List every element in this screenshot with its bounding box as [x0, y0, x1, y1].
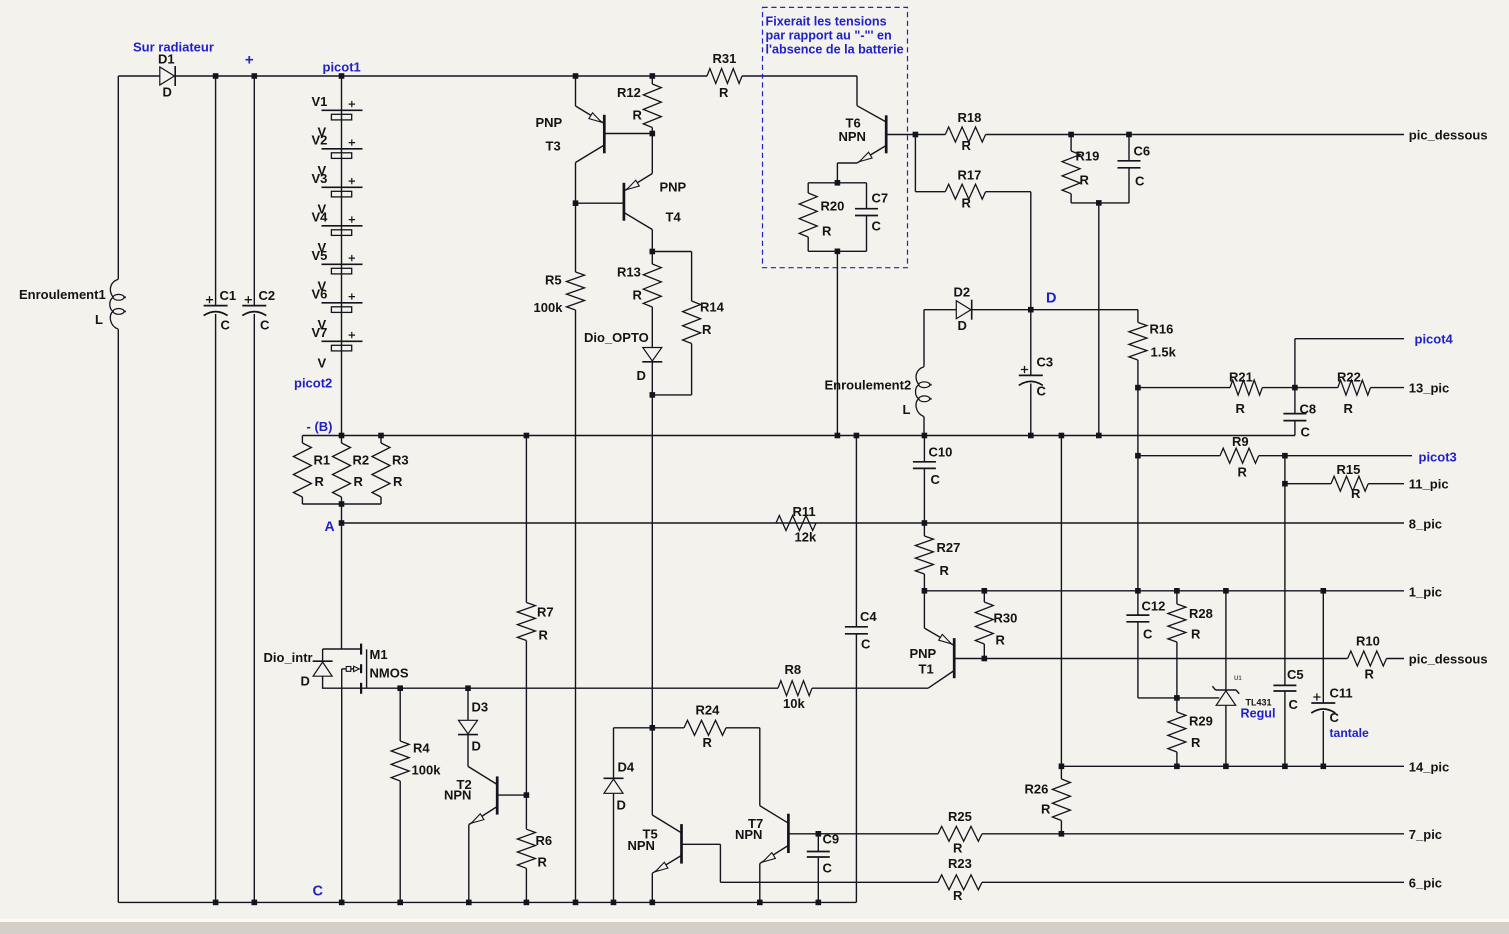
- svg-text:C: C: [1301, 425, 1311, 440]
- dashed comment box: [763, 7, 908, 267]
- resistor R11: [776, 516, 816, 531]
- svg-text:R8: R8: [785, 662, 802, 677]
- plus mark of V3: [349, 178, 355, 184]
- svg-text:C: C: [861, 637, 871, 652]
- transistor T7 (NPN): [759, 728, 761, 806]
- svg-text:R: R: [1351, 486, 1361, 501]
- wire junction column to B rail: [1098, 203, 1100, 436]
- svg-text:11_pic: 11_pic: [1409, 477, 1449, 492]
- svg-text:tantale: tantale: [1330, 726, 1370, 740]
- svg-text:R19: R19: [1076, 149, 1100, 164]
- resistor R6: [525, 795, 527, 829]
- transistor T2 (NPN): [468, 766, 497, 784]
- capacitor C12: [1137, 591, 1139, 615]
- wire T5 emitter to C rail: [651, 873, 653, 902]
- svg-text:C4: C4: [860, 609, 877, 624]
- transistor T4 (PNP): [651, 134, 653, 174]
- capacitor C6: [1128, 135, 1130, 161]
- svg-text:picot1: picot1: [323, 60, 361, 75]
- junction R28 top: [1174, 588, 1180, 594]
- svg-text:R11: R11: [793, 504, 816, 519]
- svg-text:C: C: [260, 318, 270, 333]
- plus mark of V2: [349, 139, 355, 145]
- plus mark of V6: [349, 293, 355, 299]
- wire T4 base lead: [576, 202, 624, 204]
- wire M1 source line y=688.2: [322, 687, 778, 689]
- svg-text:C1: C1: [220, 288, 237, 303]
- transistor T6 (NPN): [856, 76, 858, 106]
- svg-text:PNP: PNP: [910, 646, 937, 661]
- svg-text:V6: V6: [312, 286, 328, 301]
- svg-text:D4: D4: [618, 760, 635, 775]
- svg-text:C2: C2: [259, 288, 276, 303]
- capacitor C3: [1030, 310, 1032, 376]
- wire B rail y=435.5: [302, 435, 1295, 437]
- svg-text:R28: R28: [1189, 606, 1213, 621]
- svg-text:7_pic: 7_pic: [1409, 827, 1442, 842]
- svg-text:1.5k: 1.5k: [1151, 345, 1177, 360]
- resistor R29: [1176, 698, 1178, 712]
- wire 14_pic rail y=766.3: [1061, 765, 1404, 767]
- resistor R10: [1348, 651, 1387, 666]
- svg-text:U1: U1: [1234, 676, 1242, 682]
- wire mid column x=652.3 down to T5: [651, 395, 653, 728]
- junction C2 bottom on C rail: [252, 900, 258, 906]
- wire picot4 branch: [1294, 339, 1296, 388]
- svg-text:pic_dessous: pic_dessous: [1409, 652, 1488, 667]
- svg-text:NPN: NPN: [735, 827, 762, 842]
- resistor R2: [341, 436, 343, 444]
- wire T2 base lead: [497, 794, 526, 796]
- resistor R26: [1060, 436, 1062, 780]
- resistor R15: [1331, 476, 1368, 491]
- svg-text:R20: R20: [821, 199, 845, 214]
- wire R21 line y=387.6: [1138, 387, 1230, 389]
- capacitor C9: [817, 834, 819, 852]
- svg-text:D: D: [301, 674, 310, 689]
- svg-text:R17: R17: [958, 168, 982, 183]
- svg-text:picot2: picot2: [294, 376, 332, 391]
- wire C rail y=902.4: [118, 901, 856, 903]
- wire T5 base lead: [682, 843, 721, 845]
- svg-text:R4: R4: [413, 741, 430, 756]
- svg-text:C: C: [1330, 710, 1340, 725]
- battery V2: [322, 148, 363, 150]
- junction R27 bottom / T1 emitter: [922, 588, 928, 594]
- svg-text:Regul: Regul: [1241, 707, 1276, 721]
- junction R30 top: [982, 588, 988, 594]
- battery V5: [322, 263, 363, 265]
- svg-text:R: R: [996, 633, 1006, 648]
- junction picot4 / C8 / R21 R22: [1292, 385, 1298, 391]
- wire T2 emitter to C rail: [468, 825, 470, 903]
- junction R26 bottom on 7_pic line: [1059, 831, 1065, 837]
- junction R20 C7 bottom: [835, 249, 841, 255]
- svg-text:R: R: [633, 288, 643, 303]
- svg-text:C12: C12: [1142, 599, 1166, 614]
- svg-text:Dio_intr: Dio_intr: [264, 650, 313, 665]
- junction T6 base: [913, 132, 919, 138]
- svg-text:D: D: [163, 85, 172, 100]
- svg-text:NPN: NPN: [444, 788, 471, 803]
- plus mark of C11: [1313, 693, 1320, 700]
- junction R5 column on C rail: [573, 900, 579, 906]
- svg-text:8_pic: 8_pic: [1409, 517, 1442, 532]
- svg-text:C: C: [823, 861, 833, 876]
- capacitor C8: [1294, 388, 1296, 414]
- plus mark of V4: [349, 216, 355, 222]
- junction M1 gate column on C rail: [339, 900, 345, 906]
- svg-text:R6: R6: [536, 833, 553, 848]
- junction C11 top on 1_pic: [1321, 588, 1327, 594]
- junction R30 bottom / T1 base: [982, 656, 988, 662]
- resistor R13: [651, 252, 653, 265]
- wire 6_pic line y=882.3: [719, 844, 721, 882]
- inductor Enroulement2: [916, 367, 924, 385]
- junction T3 base / R12 / T4: [650, 131, 656, 137]
- svg-text:C: C: [931, 472, 941, 487]
- svg-text:NPN: NPN: [628, 838, 655, 853]
- junction R1R2R3 bottom: [339, 501, 345, 507]
- junction T2 base / R7 R6: [524, 792, 530, 798]
- junction battery minus on B rail: [339, 433, 345, 439]
- svg-text:V5: V5: [312, 248, 328, 263]
- resistor R23: [938, 875, 982, 890]
- junction Dio_OPTO bottom / R14: [650, 392, 656, 398]
- diode D1: [160, 67, 175, 85]
- resistor R7: [525, 436, 527, 603]
- wire pic_dessous line y=134.5: [915, 134, 945, 136]
- junction R26 top on B rail: [1059, 433, 1065, 439]
- resistor R31: [707, 69, 742, 84]
- transistor T3 (PNP): [575, 76, 577, 106]
- battery V1: [322, 109, 363, 111]
- resistor R18: [945, 127, 985, 142]
- svg-text:R21: R21: [1229, 370, 1253, 385]
- svg-text:C5: C5: [1287, 667, 1304, 682]
- wire 1_pic rail y=590.8: [924, 590, 1404, 592]
- wire R20/C7 to B rail: [836, 251, 838, 435]
- junction R7 top on B rail: [524, 433, 530, 439]
- svg-text:R18: R18: [958, 110, 982, 125]
- svg-text:R: R: [354, 474, 364, 489]
- svg-text:R: R: [1041, 802, 1051, 817]
- wire T6 base lead: [886, 134, 915, 136]
- svg-text:R: R: [702, 322, 712, 337]
- svg-text:R: R: [633, 108, 643, 123]
- svg-text:R: R: [1191, 627, 1201, 642]
- wire pic_dessous line y=658.5: [954, 658, 1347, 660]
- wire R15 line y=483.7: [1285, 483, 1331, 485]
- junction T4 collector / R13 R14: [650, 249, 656, 255]
- junction C10 bottom / R27 top: [922, 520, 928, 526]
- junction C1 top: [213, 73, 219, 79]
- junction R29 bottom on 14_pic: [1174, 764, 1180, 770]
- svg-text:D2: D2: [954, 285, 971, 300]
- junction R9 / C5 top: [1282, 453, 1288, 459]
- transistor T5 (NPN): [651, 728, 653, 815]
- junction R26 on 14_pic: [1059, 764, 1065, 770]
- resistor R22: [1338, 380, 1371, 395]
- svg-text:PNP: PNP: [660, 180, 687, 195]
- svg-text:12k: 12k: [795, 530, 817, 545]
- svg-text:+: +: [245, 52, 254, 69]
- capacitor C7: [866, 183, 868, 209]
- resistor R19: [1070, 135, 1072, 152]
- svg-text:picot4: picot4: [1415, 332, 1454, 347]
- svg-text:V2: V2: [312, 132, 328, 147]
- svg-text:D: D: [617, 798, 626, 813]
- junction C11 bottom on 14_pic: [1321, 764, 1327, 770]
- wire R20/C7 bottom rail: [808, 250, 866, 252]
- junction node A: [339, 520, 345, 526]
- junction R16 bottom: [1135, 385, 1141, 391]
- inductor Enroulement1: [110, 279, 118, 297]
- wire R1R2R3 bottom rail y=504: [302, 503, 381, 505]
- svg-text:par rapport au "-"' en: par rapport au "-"' en: [766, 29, 892, 43]
- resistor R17: [915, 191, 945, 193]
- plus mark of V5: [349, 255, 355, 261]
- junction x1138 column on 1_pic: [1135, 588, 1141, 594]
- svg-text:C11: C11: [1330, 686, 1353, 701]
- resistor R25: [938, 826, 982, 841]
- junction TL431 anode on 14_pic: [1223, 764, 1229, 770]
- junction T3 collector / T4 base: [573, 200, 579, 206]
- svg-text:1_pic: 1_pic: [1409, 585, 1442, 600]
- transistor T1 (PNP): [923, 591, 925, 628]
- nmos M1: [323, 648, 362, 650]
- svg-text:R16: R16: [1150, 322, 1174, 337]
- svg-text:D: D: [1046, 291, 1056, 307]
- svg-text:R10: R10: [1356, 634, 1380, 649]
- svg-text:R: R: [953, 888, 963, 903]
- svg-text:R: R: [1238, 465, 1248, 480]
- battery V6: [322, 302, 363, 304]
- wire T7 emitter to C rail: [759, 864, 761, 903]
- plus mark of V7: [349, 332, 355, 338]
- svg-text:R2: R2: [353, 453, 370, 468]
- junction C4 top on B rail: [854, 433, 860, 439]
- wire M1 drain from node A: [341, 523, 343, 649]
- wire R19/C6 bottom connector: [1071, 202, 1129, 204]
- svg-text:D3: D3: [472, 700, 489, 715]
- svg-text:NMOS: NMOS: [370, 666, 409, 681]
- svg-text:D: D: [637, 368, 646, 383]
- junction T5 emitter on C rail: [650, 900, 656, 906]
- wire T3 collector vertical: [575, 163, 577, 204]
- wire R17 right end down to node D: [1030, 192, 1032, 310]
- junction TL431 cathode on 1_pic: [1223, 588, 1229, 594]
- svg-text:C: C: [221, 318, 231, 333]
- wire node D line y=309.7: [924, 309, 956, 311]
- capacitor C2: [242, 305, 266, 307]
- resistor R30: [983, 591, 985, 602]
- svg-text:R29: R29: [1189, 714, 1213, 729]
- svg-text:A: A: [325, 518, 335, 534]
- svg-text:pic_dessous: pic_dessous: [1409, 128, 1488, 143]
- resistor R21: [1230, 380, 1262, 395]
- junction R24 / T5 collector: [650, 725, 656, 731]
- resistor R14: [652, 251, 691, 253]
- svg-text:PNP: PNP: [536, 115, 563, 130]
- plus mark of V1: [349, 101, 355, 107]
- wire D2 anode corner down to Enroulement2: [923, 310, 925, 367]
- plus mark of C2: [245, 296, 252, 303]
- resistor R12: [651, 76, 653, 84]
- svg-text:R: R: [962, 138, 972, 153]
- diode Dio_OPTO: [643, 348, 662, 362]
- svg-text:R23: R23: [948, 856, 972, 871]
- svg-text:R3: R3: [392, 453, 409, 468]
- wire R20/C7 top rail: [808, 182, 866, 184]
- junction R4 bottom on C rail: [397, 900, 403, 906]
- junction T3 emitter: [573, 73, 579, 79]
- svg-text:13_pic: 13_pic: [1409, 381, 1449, 396]
- plus mark of C1: [206, 296, 213, 303]
- battery V7: [322, 340, 363, 342]
- svg-text:R: R: [393, 474, 403, 489]
- resistor R4: [399, 688, 401, 741]
- junction R6 bottom on C rail: [524, 900, 530, 906]
- svg-text:R24: R24: [696, 703, 721, 718]
- svg-text:100k: 100k: [412, 763, 442, 778]
- diode D2: [956, 301, 971, 319]
- battery V4: [322, 225, 363, 227]
- diode D3: [467, 688, 469, 720]
- svg-text:R: R: [538, 855, 548, 870]
- svg-text:R13: R13: [617, 265, 641, 280]
- svg-text:l'absence de la batterie: l'absence de la batterie: [766, 43, 904, 57]
- wire A / 8_pic line y=523: [342, 522, 1405, 524]
- wire TL431 ref line: [1177, 697, 1219, 699]
- svg-text:T3: T3: [546, 139, 561, 154]
- svg-text:Sur radiateur: Sur radiateur: [133, 40, 214, 55]
- wire x=1137.9 column R16 to 1_pic: [1137, 388, 1139, 591]
- wire R9 line y=455.7: [1138, 455, 1220, 457]
- junction picot1: [339, 73, 345, 79]
- svg-text:V3: V3: [312, 171, 328, 186]
- resistor R20: [807, 183, 809, 193]
- svg-text:10k: 10k: [783, 696, 805, 711]
- svg-text:R: R: [1365, 667, 1375, 682]
- junction R12 top: [650, 73, 656, 79]
- battery V3: [322, 186, 363, 188]
- junction Enroulement2 / C10 on B rail: [922, 433, 928, 439]
- wire T3 base lead: [604, 133, 652, 135]
- svg-text:L: L: [95, 312, 103, 327]
- resistor R8: [778, 681, 812, 696]
- plus mark of C3: [1021, 366, 1028, 373]
- junction T6 emitter / R20 C7 top: [835, 180, 841, 186]
- capacitor C5: [1284, 456, 1286, 686]
- svg-text:R: R: [1080, 173, 1090, 188]
- svg-text:14_pic: 14_pic: [1409, 760, 1449, 775]
- capacitor C1: [204, 305, 228, 307]
- junction C6 top: [1126, 132, 1132, 138]
- resistor R1: [301, 436, 303, 444]
- svg-text:C: C: [1289, 697, 1299, 712]
- svg-text:R: R: [940, 563, 950, 578]
- svg-text:C8: C8: [1300, 402, 1317, 417]
- svg-text:V7: V7: [312, 325, 328, 340]
- diode Dio_intr: [322, 649, 324, 661]
- svg-text:D: D: [472, 739, 481, 754]
- capacitor C4: [855, 436, 857, 627]
- junction D4 bottom on C rail: [611, 900, 617, 906]
- svg-text:V1: V1: [312, 94, 328, 109]
- svg-text:L: L: [903, 402, 911, 417]
- svg-text:Dio_OPTO: Dio_OPTO: [584, 330, 649, 345]
- capacitor C11: [1322, 591, 1324, 703]
- wire Enroulement2 to B rail: [923, 417, 925, 436]
- svg-text:D: D: [958, 318, 967, 333]
- junction T7 emitter on C rail: [757, 900, 763, 906]
- junction C3 bottom on B rail: [1028, 433, 1034, 439]
- svg-text:Enroulement1: Enroulement1: [19, 287, 106, 302]
- wire battery column picot1 to B rail: [341, 76, 343, 436]
- svg-text:R25: R25: [948, 809, 972, 824]
- svg-text:C6: C6: [1134, 144, 1151, 159]
- junction C9 bottom on C rail: [816, 900, 822, 906]
- svg-text:Enroulement2: Enroulement2: [825, 378, 912, 393]
- junction C12 / R28 / R29 / TL431 ref: [1174, 695, 1180, 701]
- svg-text:R: R: [962, 196, 972, 211]
- svg-text:NPN: NPN: [839, 129, 866, 144]
- svg-text:C9: C9: [823, 832, 840, 847]
- junction R15 line: [1282, 481, 1288, 487]
- junction C1 bottom on C rail: [213, 900, 219, 906]
- junction R3 top on B rail: [378, 433, 384, 439]
- junction D3 top: [465, 685, 471, 691]
- wire left vertical from D1 anode down to C rail: [117, 76, 119, 279]
- svg-text:R: R: [539, 628, 549, 643]
- svg-text:R27: R27: [937, 540, 961, 555]
- wire C1 column: [215, 76, 217, 306]
- svg-text:M1: M1: [370, 647, 388, 662]
- junction C5 bottom on 14_pic: [1282, 764, 1288, 770]
- svg-text:V4: V4: [312, 209, 329, 224]
- svg-text:R22: R22: [1337, 370, 1361, 385]
- svg-text:R12: R12: [617, 85, 641, 100]
- wire 7_pic line y=833.8: [788, 833, 938, 835]
- svg-text:C: C: [1143, 627, 1153, 642]
- svg-text:C7: C7: [872, 191, 889, 206]
- svg-text:C10: C10: [929, 445, 953, 460]
- svg-text:R: R: [953, 841, 963, 856]
- junction R19 top: [1068, 132, 1074, 138]
- wire M1 gate column to C rail: [341, 669, 343, 903]
- resistor R3: [380, 436, 382, 444]
- wire R24 line y=727.8: [614, 727, 685, 729]
- svg-text:R: R: [719, 85, 729, 100]
- resistor R24: [684, 720, 726, 735]
- junction C9 top: [816, 831, 822, 837]
- resistor R16: [1137, 310, 1139, 323]
- svg-text:R: R: [1344, 401, 1354, 416]
- svg-text:picot3: picot3: [1419, 450, 1457, 465]
- wire T6 base junction down to R17: [914, 135, 916, 192]
- bottom status strip: [0, 919, 1509, 922]
- svg-text:R1: R1: [314, 453, 331, 468]
- junction R9 line left end: [1135, 453, 1141, 459]
- wire main top rail (+) y=76: [118, 75, 160, 77]
- svg-text:R14: R14: [700, 300, 725, 315]
- resistor R9: [1220, 448, 1259, 463]
- svg-text:R: R: [822, 224, 832, 239]
- junction R19 C6 bottom: [1096, 200, 1102, 206]
- svg-text:C3: C3: [1037, 355, 1054, 370]
- svg-text:100k: 100k: [534, 300, 564, 315]
